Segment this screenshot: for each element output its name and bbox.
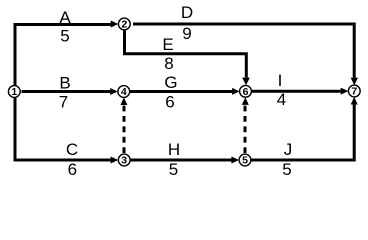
svg-text:5: 5 [169, 160, 178, 179]
label A 5 [59, 8, 71, 46]
node 6 [240, 85, 252, 98]
node 7 [348, 85, 360, 98]
activity G arrow (4 to 6) [130, 88, 240, 95]
activity D arrow (2 to 7) [133, 24, 358, 85]
svg-text:6: 6 [68, 160, 77, 179]
svg-text:E: E [162, 35, 173, 54]
label B 7 [59, 74, 71, 112]
svg-text:5: 5 [60, 27, 69, 46]
svg-text:C: C [66, 140, 78, 159]
activity J arrow (5 to 7) [251, 97, 358, 160]
svg-text:3: 3 [121, 155, 127, 167]
label G 6 [164, 73, 177, 112]
svg-text:H: H [168, 140, 180, 159]
node 1 [8, 86, 20, 99]
node 3 [118, 154, 130, 167]
svg-text:5: 5 [242, 155, 248, 167]
activity E arrow (2 to 6) [125, 29, 250, 85]
activity H arrow (3 to 5) [130, 157, 239, 164]
label D 9 [181, 3, 193, 43]
node 2 [118, 18, 130, 31]
svg-text:4: 4 [277, 90, 286, 109]
svg-text:B: B [59, 74, 70, 93]
activity C arrow (1 to 3) [14, 157, 119, 164]
node 4 [118, 86, 130, 99]
dummy arrow dashed (5 to 6) [242, 97, 249, 153]
label E 8 [162, 35, 173, 73]
svg-text:7: 7 [59, 93, 68, 112]
activity B arrow (1 to 4) [22, 88, 118, 95]
svg-text:G: G [164, 73, 177, 92]
node 5 [239, 154, 251, 167]
svg-text:5: 5 [282, 160, 291, 179]
svg-text:A: A [59, 8, 71, 27]
svg-text:6: 6 [243, 86, 249, 98]
svg-text:2: 2 [121, 19, 127, 31]
svg-text:J: J [284, 140, 293, 159]
wire left spine from node 1 [14, 23, 17, 160]
label H 5 [168, 140, 180, 179]
svg-text:9: 9 [182, 24, 191, 43]
svg-text:6: 6 [165, 93, 174, 112]
activity I arrow (6 to 7) [252, 88, 349, 95]
svg-text:8: 8 [164, 54, 173, 73]
svg-text:D: D [181, 3, 193, 22]
svg-text:1: 1 [11, 86, 17, 98]
label C 6 [66, 140, 78, 179]
dummy arrow dashed (3 to 4) [120, 97, 127, 153]
svg-text:7: 7 [351, 86, 357, 98]
label J 5 [282, 140, 292, 179]
svg-text:I: I [278, 71, 283, 90]
activity A arrow (1 to 2) [14, 21, 119, 28]
label I 4 [277, 71, 286, 109]
svg-text:4: 4 [121, 86, 127, 98]
